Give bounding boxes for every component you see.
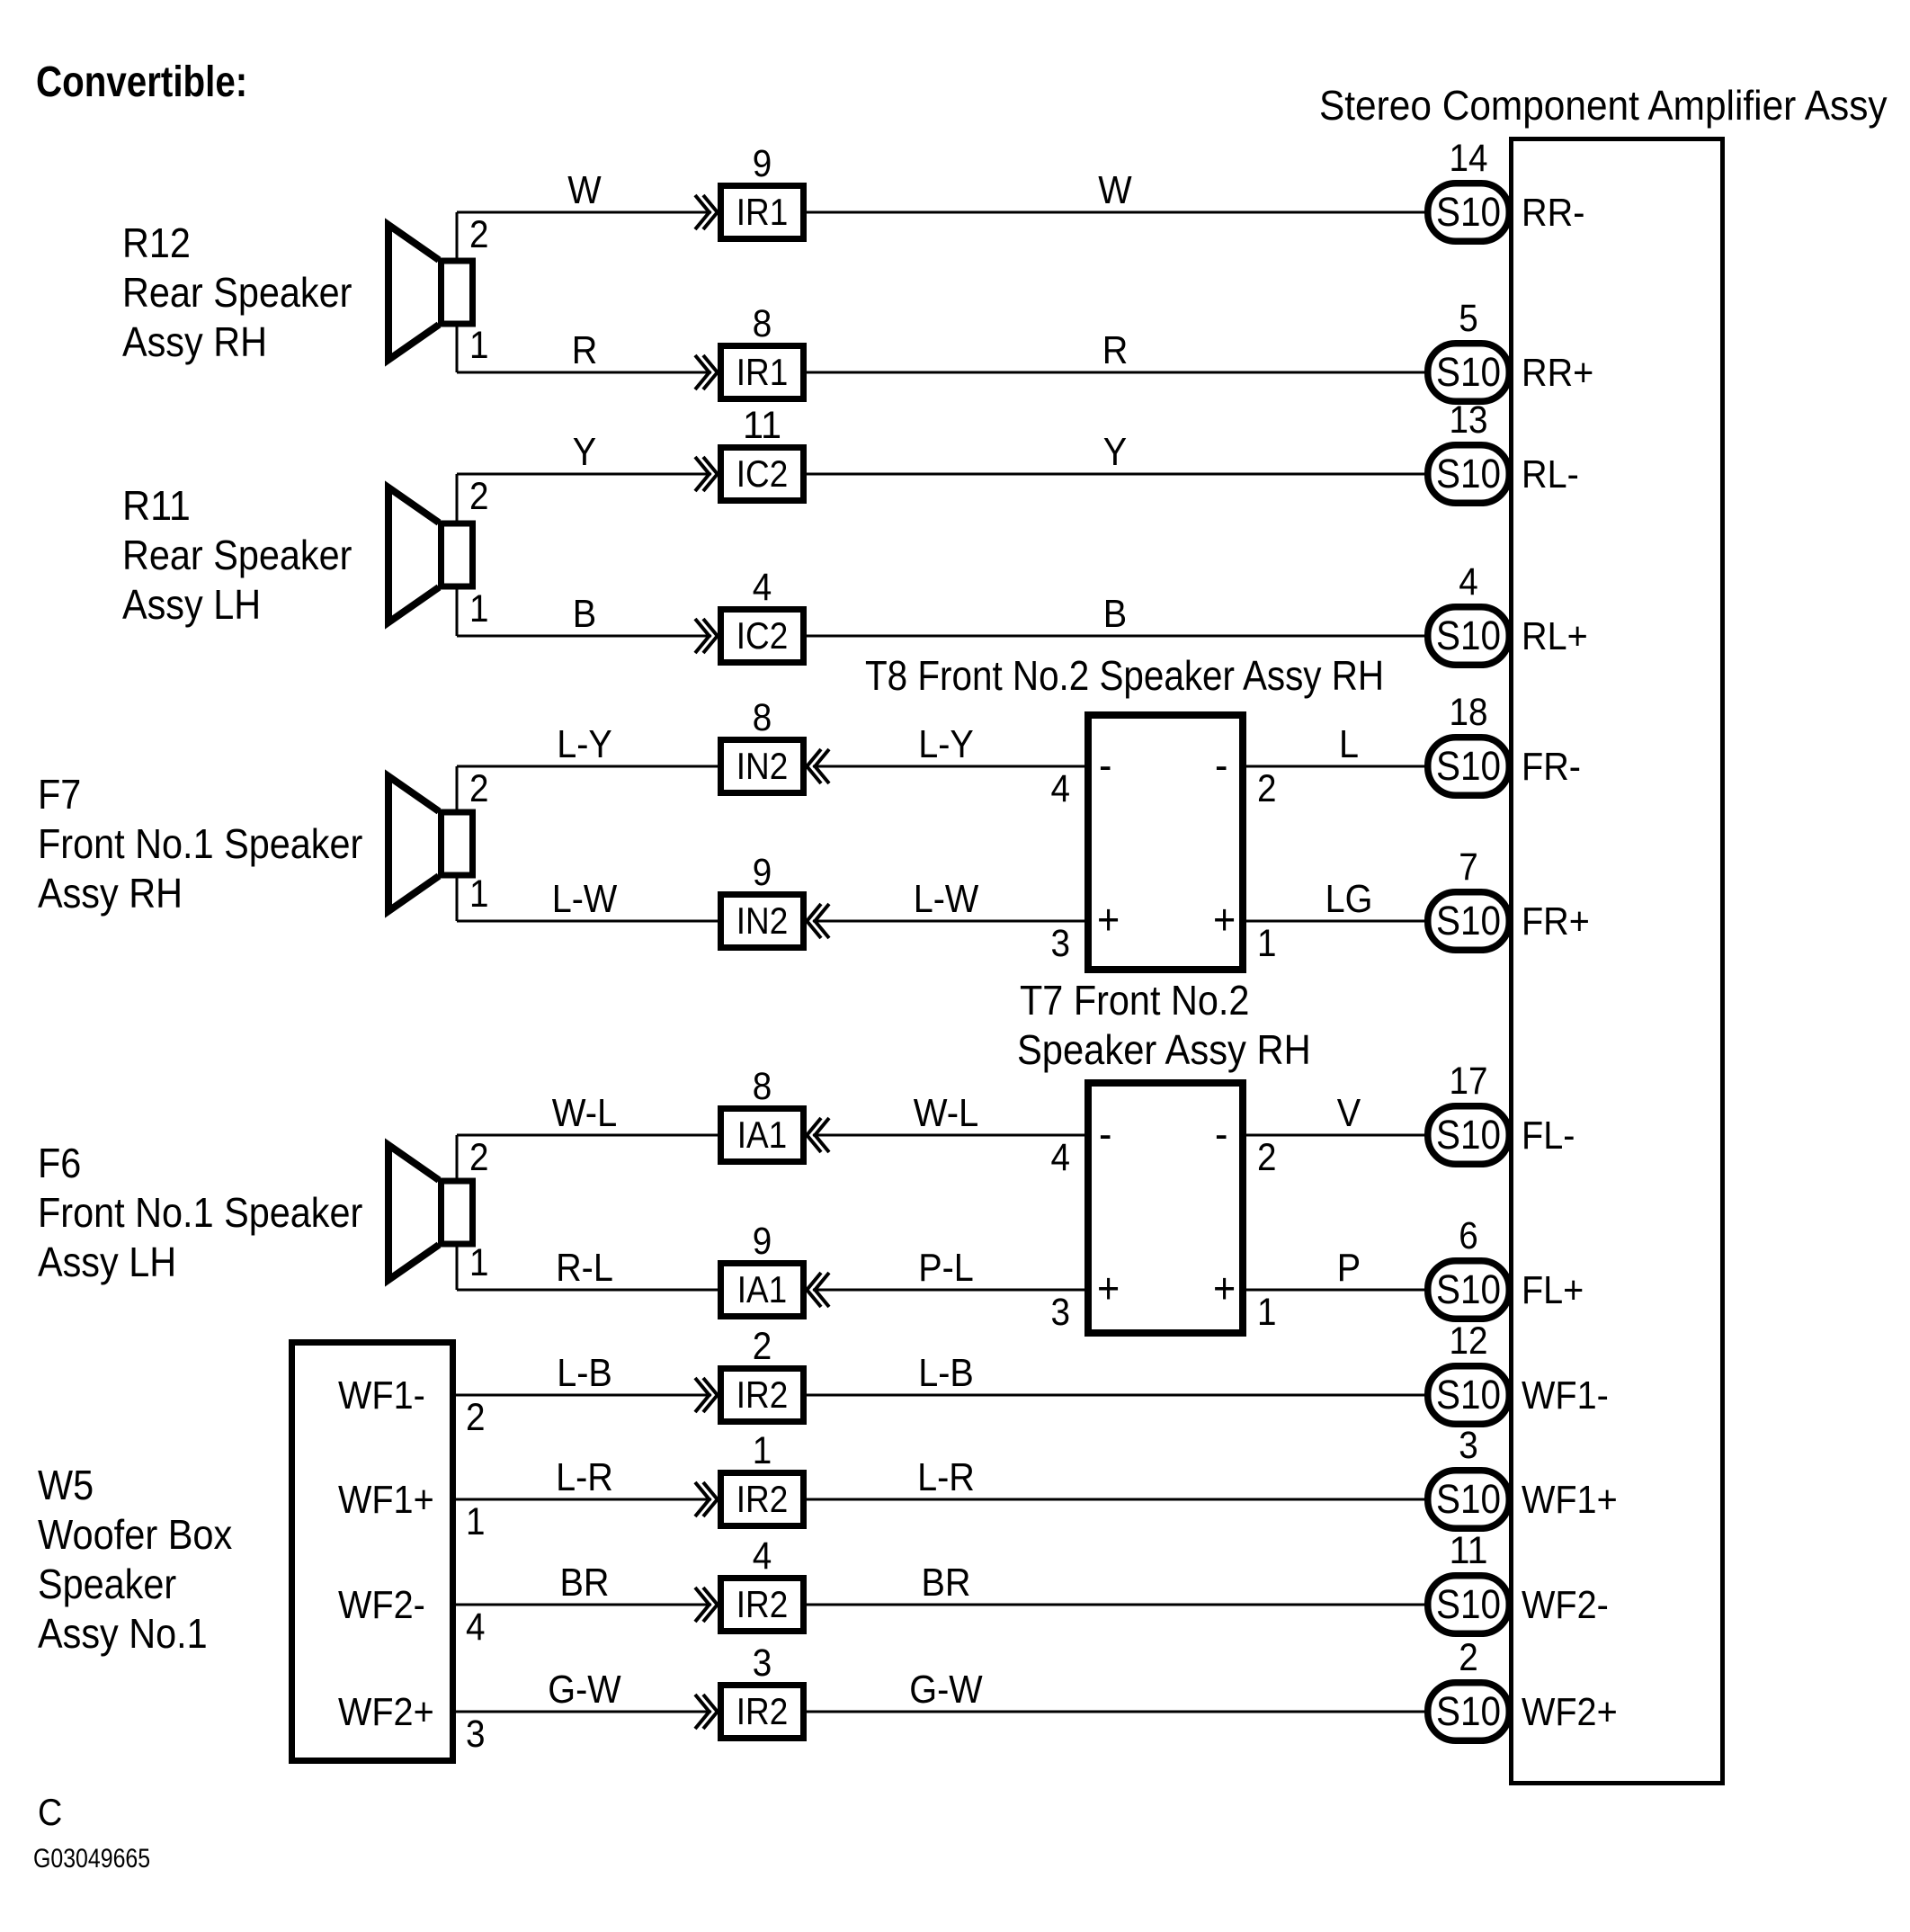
svg-text:11: 11 (743, 404, 781, 447)
svg-text:8: 8 (753, 696, 772, 739)
wire: speaker pin 1 stub (456, 879, 459, 922)
arrow into IA1 (female, from T-box side) (806, 1118, 821, 1152)
svg-text:FL-: FL- (1522, 1114, 1575, 1158)
svg-text:IC2: IC2 (736, 614, 789, 657)
svg-text:IN2: IN2 (736, 745, 789, 787)
svg-text:FL+: FL+ (1522, 1268, 1584, 1312)
svg-text:Speaker Assy RH: Speaker Assy RH (1017, 1026, 1311, 1073)
wire V from T-box to S10 (1246, 1134, 1424, 1137)
svg-text:W-L: W-L (914, 1091, 979, 1135)
svg-text:12: 12 (1450, 1319, 1488, 1363)
svg-text:S10: S10 (1436, 613, 1501, 658)
svg-text:14: 14 (1450, 137, 1488, 180)
svg-text:11: 11 (1450, 1529, 1488, 1572)
wire G-W from IR2 to S10 (807, 1711, 1424, 1713)
svg-text:IR1: IR1 (736, 191, 789, 233)
arrow into IA1 (female, from T-box side) (806, 1273, 821, 1307)
speaker R11 Rear Speaker Assy LH (388, 487, 439, 622)
svg-text:2: 2 (753, 1325, 772, 1368)
wire B from speaker to IC2 (457, 635, 711, 638)
svg-text:2: 2 (1257, 767, 1277, 810)
svg-text:IA1: IA1 (737, 1114, 788, 1156)
svg-text:+: + (1097, 897, 1120, 944)
arrow into IC2 (male) (703, 619, 718, 653)
connector S10 (pin 17) (1428, 1106, 1510, 1165)
svg-text:G03049665: G03049665 (33, 1844, 150, 1874)
wire BR from IR2 to S10 (807, 1604, 1424, 1606)
svg-text:G-W: G-W (909, 1668, 983, 1712)
connector IC2 (pin 11) (721, 448, 804, 501)
svg-text:4: 4 (753, 566, 772, 609)
arrow into IR2 (male) (703, 1588, 718, 1622)
svg-text:R11: R11 (122, 482, 191, 529)
svg-text:Front No.1 Speaker: Front No.1 Speaker (38, 1189, 362, 1236)
svg-text:R: R (1102, 328, 1129, 372)
svg-text:P-L: P-L (918, 1246, 974, 1290)
svg-text:2: 2 (466, 1396, 486, 1439)
arrow into IN2 (female, from T-box side) (806, 904, 821, 938)
svg-text:C: C (38, 1791, 62, 1833)
svg-text:WF1-: WF1- (1522, 1373, 1609, 1418)
svg-text:B: B (573, 592, 596, 636)
svg-text:LG: LG (1325, 877, 1373, 921)
connector IN2 (pin 8) (721, 740, 804, 793)
svg-text:Y: Y (573, 430, 596, 474)
wire: speaker pin 2 stub (456, 474, 459, 521)
svg-text:WF2+: WF2+ (338, 1690, 434, 1734)
connector S10 (pin 6) (1428, 1261, 1510, 1319)
connector IA1 (pin 9) (721, 1264, 804, 1317)
svg-text:1: 1 (753, 1429, 772, 1472)
connector S10 (pin 5) (1428, 344, 1510, 402)
svg-text:-: - (1099, 742, 1111, 790)
svg-text:L-B: L-B (918, 1351, 974, 1395)
svg-text:T7 Front No.2: T7 Front No.2 (1020, 977, 1249, 1024)
svg-text:3: 3 (753, 1641, 772, 1685)
svg-text:7: 7 (1459, 845, 1478, 889)
svg-text:1: 1 (469, 1241, 489, 1284)
svg-text:S10: S10 (1436, 1476, 1501, 1522)
connector IR2 (pin 4) (721, 1579, 804, 1632)
connector IA1 (pin 8) (721, 1109, 804, 1162)
svg-text:R-L: R-L (556, 1246, 613, 1290)
amplifier box: Stereo Component Amplifier Assy (1512, 139, 1723, 1784)
svg-text:Assy RH: Assy RH (122, 318, 267, 365)
speaker R12 Rear Speaker Assy RH (388, 225, 439, 360)
connector S10 (pin 7) (1428, 892, 1510, 951)
arrow into IR1 (male) (703, 355, 718, 389)
svg-text:WF1+: WF1+ (338, 1478, 434, 1522)
svg-text:2: 2 (469, 475, 489, 518)
connector S10 (pin 13) (1428, 445, 1510, 504)
svg-text:L-R: L-R (556, 1455, 613, 1499)
woofer box W5 Woofer Box Speaker Assy No.1 (292, 1343, 453, 1761)
svg-text:R: R (572, 328, 598, 372)
svg-text:1: 1 (469, 872, 489, 916)
svg-text:Assy RH: Assy RH (38, 870, 183, 917)
svg-text:IR2: IR2 (736, 1690, 789, 1732)
svg-text:B: B (1103, 592, 1127, 636)
svg-text:18: 18 (1450, 691, 1488, 734)
wire Y from speaker to IC2 (457, 473, 711, 476)
svg-text:S10: S10 (1436, 1266, 1501, 1312)
svg-text:IN2: IN2 (736, 899, 789, 942)
svg-text:Rear Speaker: Rear Speaker (122, 269, 352, 316)
speaker F7 Front No.1 Speaker Assy RH (388, 776, 439, 911)
wire: speaker pin 2 stub (456, 1135, 459, 1178)
svg-text:8: 8 (753, 1065, 772, 1108)
wire L-R from W5 to IR2 (453, 1498, 711, 1501)
svg-text:RL+: RL+ (1522, 614, 1588, 658)
svg-text:+: + (1213, 897, 1236, 944)
connector IN2 (pin 9) (721, 895, 804, 948)
svg-text:1: 1 (1257, 922, 1277, 965)
svg-text:R12: R12 (122, 219, 191, 266)
svg-text:RR-: RR- (1522, 191, 1584, 235)
wire P from T-box to S10 (1246, 1289, 1424, 1292)
svg-text:3: 3 (466, 1713, 486, 1756)
svg-text:Assy No.1: Assy No.1 (38, 1610, 208, 1657)
svg-text:4: 4 (1051, 1136, 1071, 1179)
svg-text:L: L (1339, 722, 1359, 766)
svg-text:L-Y: L-Y (918, 722, 974, 766)
wire P-L from IA1 to T-box (813, 1289, 1084, 1292)
wire L-Y from speaker to IN2 (457, 765, 718, 768)
wire R-L from speaker to IA1 (457, 1289, 718, 1292)
svg-text:G-W: G-W (548, 1668, 621, 1712)
svg-text:9: 9 (753, 1220, 772, 1263)
svg-text:2: 2 (1459, 1636, 1478, 1679)
arrow into IR2 (male) (703, 1378, 718, 1412)
connector S10 (pin 11) (1428, 1576, 1510, 1634)
wire: speaker pin 1 stub (456, 590, 459, 637)
svg-text:1: 1 (1257, 1291, 1277, 1334)
svg-text:8: 8 (753, 302, 772, 345)
wire Y from IC2 to S10 (807, 473, 1424, 476)
wire W-L from IA1 to T-box (813, 1134, 1084, 1137)
svg-text:S10: S10 (1436, 1372, 1501, 1418)
svg-text:Assy LH: Assy LH (122, 581, 261, 628)
svg-text:WF2-: WF2- (1522, 1583, 1609, 1627)
connector IR1 (pin 8) (721, 346, 804, 399)
wire W from IR1 to S10 (807, 211, 1424, 214)
svg-text:IR2: IR2 (736, 1478, 789, 1520)
svg-text:FR-: FR- (1522, 745, 1581, 789)
wire R from speaker to IR1 (457, 371, 711, 374)
arrow into IR2 (male) (703, 1482, 718, 1516)
svg-text:IR1: IR1 (736, 351, 789, 393)
svg-text:IC2: IC2 (736, 452, 789, 495)
svg-text:S10: S10 (1436, 349, 1501, 395)
svg-text:+: + (1213, 1266, 1236, 1313)
svg-text:-: - (1215, 742, 1227, 790)
svg-text:WF2-: WF2- (338, 1583, 425, 1627)
wire L-B from W5 to IR2 (453, 1394, 711, 1397)
svg-text:FR+: FR+ (1522, 899, 1590, 944)
svg-text:W5: W5 (38, 1462, 94, 1508)
wire W-L from speaker to IA1 (457, 1134, 718, 1137)
svg-text:W-L: W-L (552, 1091, 618, 1135)
wire L-W from speaker to IN2 (457, 920, 718, 923)
svg-text:WF1+: WF1+ (1522, 1478, 1618, 1522)
svg-text:13: 13 (1450, 398, 1488, 442)
svg-text:S10: S10 (1436, 1112, 1501, 1158)
svg-text:3: 3 (1459, 1424, 1478, 1467)
svg-text:3: 3 (1051, 1291, 1071, 1334)
svg-text:L-B: L-B (557, 1351, 612, 1395)
svg-text:L-Y: L-Y (557, 722, 612, 766)
arrow into IC2 (male) (703, 457, 718, 491)
svg-text:Rear Speaker: Rear Speaker (122, 532, 352, 578)
svg-text:-: - (1099, 1111, 1111, 1158)
svg-text:1: 1 (469, 587, 489, 631)
svg-text:Woofer Box: Woofer Box (38, 1511, 232, 1558)
svg-text:P: P (1337, 1246, 1361, 1290)
svg-text:L-W: L-W (552, 877, 618, 921)
connector IR2 (pin 2) (721, 1369, 804, 1422)
svg-text:2: 2 (1257, 1136, 1277, 1179)
svg-text:4: 4 (466, 1606, 486, 1649)
arrow into IN2 (female, from T-box side) (806, 749, 821, 783)
connector IR1 (pin 9) (721, 186, 804, 239)
wire L-W from IN2 to T-box (813, 920, 1084, 923)
svg-text:S10: S10 (1436, 1688, 1501, 1734)
svg-text:4: 4 (753, 1534, 772, 1578)
connector T8 Front No.2 Speaker Assy RH (1088, 715, 1243, 970)
svg-text:Y: Y (1103, 430, 1127, 474)
svg-text:+: + (1097, 1266, 1120, 1313)
wire L-R from IR2 to S10 (807, 1498, 1424, 1501)
svg-text:S10: S10 (1436, 1581, 1501, 1627)
svg-text:-: - (1215, 1111, 1227, 1158)
connector S10 (pin 12) (1428, 1366, 1510, 1425)
wire B from IC2 to S10 (807, 635, 1424, 638)
svg-text:2: 2 (469, 767, 489, 810)
svg-text:WF2+: WF2+ (1522, 1690, 1618, 1734)
svg-text:L-R: L-R (917, 1455, 975, 1499)
wire L from T-box to S10 (1246, 765, 1424, 768)
svg-text:RL-: RL- (1522, 452, 1579, 496)
connector IR2 (pin 3) (721, 1686, 804, 1739)
svg-text:WF1-: WF1- (338, 1373, 425, 1418)
wire G-W from W5 to IR2 (453, 1711, 711, 1713)
connector S10 (pin 2) (1428, 1683, 1510, 1741)
wire R from IR1 to S10 (807, 371, 1424, 374)
svg-text:2: 2 (469, 213, 489, 256)
svg-text:IR2: IR2 (736, 1373, 789, 1416)
svg-text:IA1: IA1 (737, 1268, 788, 1310)
connector IR2 (pin 1) (721, 1473, 804, 1526)
svg-text:6: 6 (1459, 1214, 1478, 1257)
svg-text:V: V (1337, 1091, 1361, 1135)
svg-text:W: W (567, 168, 602, 212)
svg-text:W: W (1098, 168, 1132, 212)
svg-text:2: 2 (469, 1136, 489, 1179)
svg-text:Convertible:: Convertible: (36, 58, 247, 106)
svg-text:4: 4 (1459, 560, 1478, 604)
svg-text:IR2: IR2 (736, 1583, 789, 1625)
wire: speaker pin 2 stub (456, 212, 459, 258)
connector S10 (pin 4) (1428, 607, 1510, 666)
connector S10 (pin 18) (1428, 738, 1510, 796)
svg-text:S10: S10 (1436, 451, 1501, 496)
svg-text:Assy LH: Assy LH (38, 1239, 176, 1285)
svg-text:RR+: RR+ (1522, 351, 1593, 395)
svg-text:4: 4 (1051, 767, 1071, 810)
speaker F6 Front No.1 Speaker Assy LH (388, 1145, 439, 1280)
svg-text:Front No.1 Speaker: Front No.1 Speaker (38, 820, 362, 867)
svg-text:T8 Front No.2 Speaker Assy RH: T8 Front No.2 Speaker Assy RH (865, 652, 1384, 699)
svg-text:Stereo Component Amplifier Ass: Stereo Component Amplifier Assy (1319, 82, 1888, 129)
wire: speaker pin 2 stub (456, 766, 459, 809)
svg-text:F7: F7 (38, 771, 81, 818)
svg-text:F6: F6 (38, 1140, 81, 1186)
svg-text:Speaker: Speaker (38, 1561, 176, 1607)
wire BR from W5 to IR2 (453, 1604, 711, 1606)
svg-text:BR: BR (560, 1561, 610, 1605)
wire: speaker pin 1 stub (456, 327, 459, 373)
arrow into IR2 (male) (703, 1695, 718, 1729)
wire LG from T-box to S10 (1246, 920, 1424, 923)
connector T7 Front No.2 Speaker Assy RH (1088, 1083, 1243, 1333)
svg-text:1: 1 (469, 324, 489, 367)
svg-text:9: 9 (753, 851, 772, 894)
svg-text:5: 5 (1459, 297, 1478, 340)
wire: speaker pin 1 stub (456, 1248, 459, 1291)
connector S10 (pin 3) (1428, 1471, 1510, 1529)
svg-text:S10: S10 (1436, 743, 1501, 789)
svg-text:9: 9 (753, 142, 772, 185)
connector IC2 (pin 4) (721, 610, 804, 663)
svg-text:3: 3 (1051, 922, 1071, 965)
connector S10 (pin 14) (1428, 183, 1510, 242)
wire L-B from IR2 to S10 (807, 1394, 1424, 1397)
svg-text:L-W: L-W (914, 877, 979, 921)
wire W from speaker to IR1 (457, 211, 711, 214)
svg-text:BR: BR (922, 1561, 971, 1605)
svg-text:S10: S10 (1436, 189, 1501, 235)
wire L-Y from IN2 to T-box (813, 765, 1084, 768)
svg-text:17: 17 (1450, 1060, 1488, 1103)
svg-text:S10: S10 (1436, 898, 1501, 944)
svg-text:1: 1 (466, 1500, 486, 1543)
arrow into IR1 (male) (703, 195, 718, 229)
